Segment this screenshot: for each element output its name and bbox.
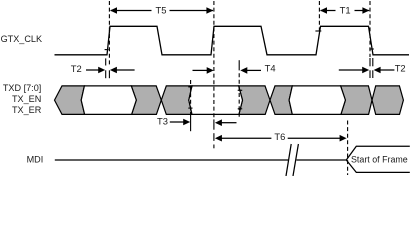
svg-text:T1: T1 — [340, 4, 351, 15]
GTX_CLK waveform — [55, 26, 410, 55]
svg-text:GTX_CLK: GTX_CLK — [1, 34, 42, 44]
svg-text:T5: T5 — [156, 4, 167, 15]
solid measurement line at bus transition (T3 bound) — [190, 80, 192, 112]
svg-text:TX_ER: TX_ER — [12, 105, 42, 115]
T2 dimension left (setup at rising edge) — [71, 63, 135, 74]
dashed line at last clock falling edge (T1 right bound) — [369, 1, 371, 57]
svg-text:T4: T4 — [265, 62, 276, 73]
svg-text:TX_EN: TX_EN — [12, 94, 41, 104]
break slash 1 — [286, 144, 291, 176]
dashed line at first clock rising edge — [108, 1, 110, 66]
threshold tick on last falling edge — [369, 48, 374, 50]
svg-text:T2: T2 — [71, 63, 82, 74]
T2 dimension right (hold at falling edge) — [339, 63, 406, 74]
MDI line left of break — [55, 159, 288, 161]
svg-text:T2: T2 — [395, 63, 406, 74]
T6 dimension (clock to start of frame) — [215, 131, 347, 142]
bus gray segment 1 — [55, 86, 85, 115]
dashed line at second clock rising edge — [213, 1, 215, 118]
svg-text:MDI: MDI — [27, 155, 44, 165]
T5 dimension (clock period) — [110, 4, 213, 15]
bus valid-data hexagon 1 — [81, 86, 136, 115]
break slash 2 — [293, 144, 298, 176]
bus valid-data hexagon 2 — [189, 86, 243, 115]
threshold tick on third rising edge — [315, 30, 321, 32]
svg-text:T3: T3 — [157, 116, 168, 127]
svg-text:TXD [7:0]: TXD [7:0] — [3, 83, 41, 93]
bus gray segment 6 — [341, 86, 372, 115]
bus gray segment 7 — [372, 86, 403, 115]
short line left of first rising edge (T2 left bound) — [105, 58, 107, 65]
bus gray segment 2 — [131, 86, 161, 115]
bus gray segment 4 — [239, 86, 270, 115]
ticks on bus hexagon 2 closing arms — [238, 89, 243, 91]
dashed line at data valid point (T4 right bound) — [238, 60, 240, 70]
bus gray segment 5 — [270, 86, 292, 115]
MDI line right of break — [297, 159, 347, 161]
bus valid-data hexagon 3 — [289, 86, 345, 115]
threshold tick on first rising edge — [105, 49, 109, 51]
svg-text:Start of Frame: Start of Frame — [351, 154, 408, 164]
T3 dimension (data transition to clock edge) — [157, 116, 237, 127]
short line right of last falling edge (T2 right bound) — [372, 58, 374, 66]
dashed line at start of frame (T6 right bound) — [347, 121, 349, 176]
ticks on bus hexagon 2 opening arms — [188, 86, 192, 88]
T4 dimension (clock to data valid) — [193, 62, 276, 73]
bus gray segment 3 — [161, 86, 192, 115]
svg-text:T6: T6 — [274, 131, 285, 142]
T1 dimension (clock high time) — [320, 4, 369, 15]
MDI start-of-frame envelope — [346, 146, 410, 172]
dashed line at third clock rising edge (T1 left bound) — [318, 1, 320, 33]
